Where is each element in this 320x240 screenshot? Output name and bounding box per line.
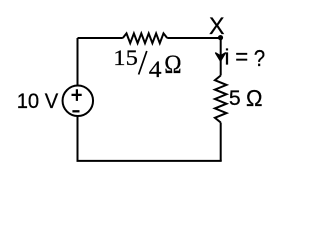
voltage source V1 circle xyxy=(63,86,94,117)
resistor R1 15/4 ohm (top horizontal zigzag) xyxy=(123,33,167,43)
svg-text:?: ? xyxy=(254,45,265,72)
voltage source plus sign xyxy=(72,89,82,101)
svg-text:10 V: 10 V xyxy=(17,89,59,113)
svg-text:=: = xyxy=(235,43,248,70)
svg-text:5: 5 xyxy=(229,87,241,110)
wire right upper segment xyxy=(220,38,222,76)
svg-text:X: X xyxy=(209,14,225,40)
current arrow i (down) xyxy=(216,53,226,61)
wire top-right segment xyxy=(167,37,221,39)
svg-text:Ω: Ω xyxy=(246,85,263,112)
label fraction slash of R1 value xyxy=(139,51,147,75)
node X junction dot xyxy=(218,35,223,40)
resistor R2 5 ohm (right vertical zigzag) xyxy=(215,76,227,123)
wire top-left segment xyxy=(78,37,123,39)
voltage source minus sign xyxy=(72,110,79,112)
svg-text:15: 15 xyxy=(113,46,138,70)
wire bottom segment xyxy=(77,160,222,162)
svg-text:i: i xyxy=(225,44,230,69)
svg-text:Ω: Ω xyxy=(164,51,181,80)
wire left upper segment xyxy=(77,38,79,85)
svg-text:4: 4 xyxy=(149,57,162,83)
wire left lower segment xyxy=(77,117,79,161)
wire right lower segment xyxy=(220,123,222,161)
